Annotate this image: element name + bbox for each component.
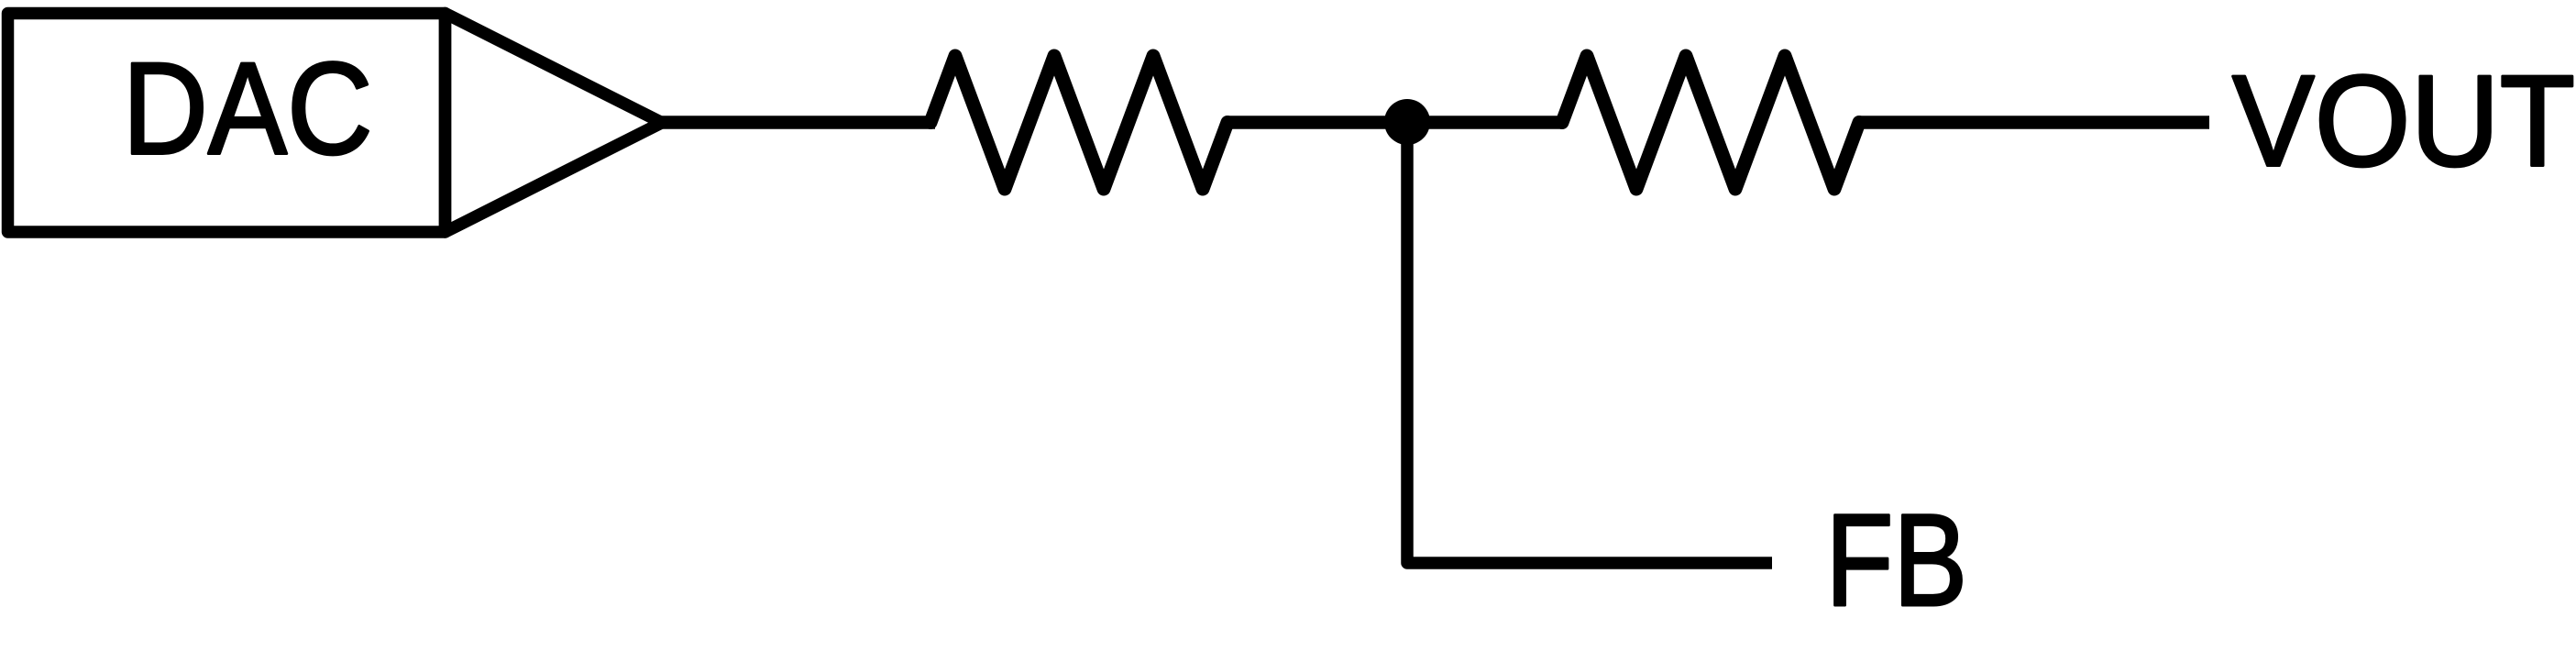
node junction dot [1384, 99, 1430, 145]
wire: R2 to VOUT [1859, 116, 2209, 129]
buffer amplifier triangle [446, 14, 663, 233]
svg-text:VOUT: VOUT [2232, 49, 2575, 193]
wire: R1 to node to R2 [1227, 116, 1562, 129]
DAC block U1 [8, 14, 446, 233]
svg-text:DAC: DAC [123, 37, 373, 182]
wire: buffer output to R1 [660, 116, 935, 129]
svg-text:FB: FB [1826, 488, 1968, 634]
resistor R1 [930, 56, 1227, 189]
resistor R2 [1562, 56, 1859, 189]
wire: node down to FB corner and across to FB [1407, 122, 1772, 563]
